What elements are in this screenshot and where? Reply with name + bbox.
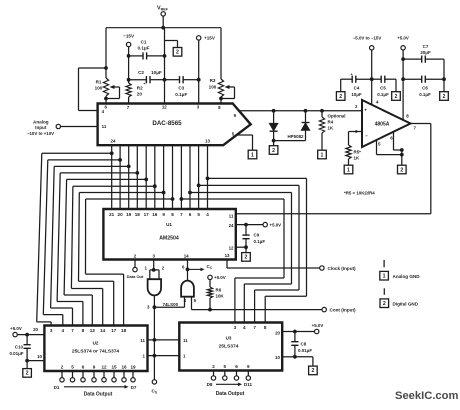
svg-text:2: 2 [383, 301, 386, 307]
svg-text:24: 24 [229, 223, 234, 228]
svg-text:AM2504: AM2504 [159, 236, 179, 242]
svg-text:11: 11 [140, 338, 145, 343]
svg-text:11: 11 [229, 213, 234, 218]
svg-text:25LS374: 25LS374 [219, 344, 239, 350]
svg-text:2: 2 [272, 148, 275, 154]
svg-text:2: 2 [339, 94, 342, 100]
svg-text:21: 21 [109, 212, 115, 217]
svg-text:15: 15 [111, 365, 117, 370]
svg-text:D11: D11 [244, 382, 253, 387]
svg-text:1K: 1K [354, 156, 360, 161]
svg-text:2: 2 [61, 365, 64, 370]
svg-text:SeekIC.com: SeekIC.com [395, 390, 458, 402]
svg-text:R6: R6 [216, 288, 222, 293]
svg-text:R1: R1 [96, 80, 102, 85]
svg-text:R5*: R5* [354, 150, 362, 155]
svg-text:18: 18 [121, 328, 127, 333]
svg-text:20: 20 [137, 92, 143, 97]
svg-text:C10: C10 [15, 344, 24, 349]
svg-text:2: 2 [311, 368, 314, 374]
svg-text:10K: 10K [216, 294, 225, 299]
svg-text:C3: C3 [178, 86, 184, 91]
svg-text:10μF: 10μF [351, 92, 362, 97]
svg-text:1K: 1K [328, 126, 334, 131]
svg-text:100: 100 [95, 86, 103, 91]
svg-text:C2: C2 [138, 70, 144, 75]
svg-text:9: 9 [247, 364, 250, 369]
svg-text:9: 9 [162, 212, 165, 217]
svg-text:0.1μF: 0.1μF [175, 92, 187, 97]
svg-text:DAC-8565: DAC-8565 [152, 120, 182, 127]
svg-text:0.01μF: 0.01μF [298, 348, 312, 353]
svg-text:18: 18 [135, 212, 141, 217]
svg-text:−10V to +10V: −10V to +10V [27, 131, 54, 136]
svg-text:11: 11 [183, 338, 188, 343]
svg-text:+5.0V: +5.0V [397, 36, 409, 41]
svg-text:+15V: +15V [204, 36, 216, 41]
svg-text:R3: R3 [210, 78, 216, 83]
svg-text:C7: C7 [423, 44, 429, 49]
svg-text:R4: R4 [328, 120, 334, 125]
svg-text:20: 20 [118, 212, 124, 217]
svg-text:6: 6 [82, 365, 85, 370]
svg-text:3: 3 [234, 325, 237, 330]
svg-text:−15V: −15V [123, 34, 135, 39]
svg-text:4: 4 [62, 328, 65, 333]
svg-text:1: 1 [321, 152, 324, 158]
svg-text:13: 13 [225, 253, 230, 258]
svg-text:16: 16 [121, 365, 127, 370]
svg-text:4: 4 [243, 325, 246, 330]
svg-text:Data Output: Data Output [216, 391, 245, 397]
svg-text:10: 10 [275, 355, 280, 360]
svg-text:8: 8 [82, 328, 85, 333]
svg-text:13: 13 [205, 139, 210, 144]
svg-text:C9: C9 [254, 233, 260, 238]
svg-text:C1: C1 [141, 40, 147, 45]
svg-text:+5.0V: +5.0V [270, 222, 282, 227]
svg-text:C5: C5 [380, 86, 386, 91]
svg-text:+5.0V: +5.0V [312, 323, 324, 328]
svg-text:Digital GND: Digital GND [393, 301, 419, 306]
svg-text:0.1μF: 0.1μF [419, 92, 431, 97]
svg-text:C8: C8 [301, 341, 307, 346]
svg-text:2: 2 [245, 255, 248, 261]
svg-text:12: 12 [101, 365, 107, 370]
svg-text:Data Out: Data Out [127, 274, 144, 279]
svg-text:16: 16 [152, 212, 158, 217]
svg-text:Analog GND: Analog GND [393, 274, 421, 279]
svg-text:+: + [364, 107, 367, 112]
svg-text:1: 1 [347, 167, 350, 173]
svg-text:D7: D7 [131, 385, 137, 390]
svg-text:14: 14 [184, 254, 189, 259]
svg-text:5: 5 [197, 212, 200, 217]
svg-text:Cont (Input): Cont (Input) [330, 308, 356, 313]
svg-text:U2: U2 [93, 341, 99, 346]
svg-text:R2: R2 [137, 86, 143, 91]
svg-text:7: 7 [253, 325, 256, 330]
svg-text:C4: C4 [354, 86, 360, 91]
svg-text:11: 11 [102, 124, 107, 129]
svg-text:1: 1 [251, 152, 254, 158]
svg-text:4: 4 [206, 212, 209, 217]
svg-text:−: − [365, 133, 368, 138]
svg-text:3: 3 [50, 328, 53, 333]
svg-text:0.1μF: 0.1μF [254, 239, 266, 244]
svg-text:6: 6 [235, 364, 238, 369]
svg-text:U3: U3 [226, 336, 232, 341]
svg-text:2: 2 [212, 364, 215, 369]
svg-text:13: 13 [90, 328, 96, 333]
svg-text:19: 19 [126, 212, 132, 217]
svg-text:5: 5 [224, 364, 227, 369]
svg-text:2: 2 [443, 94, 446, 100]
svg-text:0.1μF: 0.1μF [377, 92, 389, 97]
svg-text:24: 24 [111, 139, 116, 144]
svg-text:4805A: 4805A [375, 122, 390, 128]
svg-text:2: 2 [26, 371, 29, 377]
svg-text:2: 2 [395, 94, 398, 100]
svg-text:−5.0V to −15V: −5.0V to −15V [353, 36, 382, 41]
svg-text:19: 19 [130, 365, 136, 370]
svg-text:6: 6 [189, 212, 192, 217]
svg-text:7: 7 [180, 212, 183, 217]
svg-text:1: 1 [383, 274, 386, 280]
svg-text:2: 2 [176, 50, 179, 56]
svg-text:C6: C6 [422, 86, 428, 91]
svg-text:8: 8 [264, 325, 267, 330]
svg-text:74LS00: 74LS00 [163, 302, 179, 307]
svg-text:9: 9 [93, 365, 96, 370]
svg-text:10: 10 [37, 354, 42, 359]
svg-text:Data Output: Data Output [84, 391, 113, 397]
svg-text:+5.0V: +5.0V [214, 275, 226, 280]
svg-text:17: 17 [144, 212, 150, 217]
svg-text:20: 20 [33, 327, 38, 332]
svg-text:*R5 = 10KΩ/R4: *R5 = 10KΩ/R4 [344, 191, 375, 196]
svg-text:12: 12 [162, 104, 167, 109]
svg-text:Analog: Analog [33, 119, 49, 124]
svg-text:D8: D8 [207, 382, 213, 387]
svg-text:U1: U1 [166, 222, 172, 227]
svg-text:Input: Input [35, 125, 47, 130]
svg-text:10μF: 10μF [151, 70, 162, 75]
svg-text:0.01μF: 0.01μF [9, 351, 23, 356]
svg-text:20: 20 [275, 331, 280, 336]
svg-text:7: 7 [71, 328, 74, 333]
svg-text:17: 17 [111, 328, 117, 333]
svg-text:25LS374 or 74LS374: 25LS374 or 74LS374 [72, 349, 120, 355]
svg-text:2: 2 [400, 167, 403, 173]
svg-text:D1: D1 [54, 385, 60, 390]
svg-text:100: 100 [209, 85, 217, 90]
svg-text:+5.0V: +5.0V [10, 326, 22, 331]
svg-text:Clock (Input): Clock (Input) [328, 266, 357, 271]
svg-text:14: 14 [100, 328, 106, 333]
svg-text:0.1μF: 0.1μF [137, 46, 149, 51]
svg-text:Optional: Optional [328, 114, 346, 119]
svg-text:8: 8 [171, 212, 174, 217]
svg-text:12: 12 [229, 245, 234, 250]
svg-text:20μF: 20μF [420, 50, 431, 55]
svg-text:5: 5 [71, 365, 74, 370]
svg-text:HP5082: HP5082 [287, 134, 304, 139]
